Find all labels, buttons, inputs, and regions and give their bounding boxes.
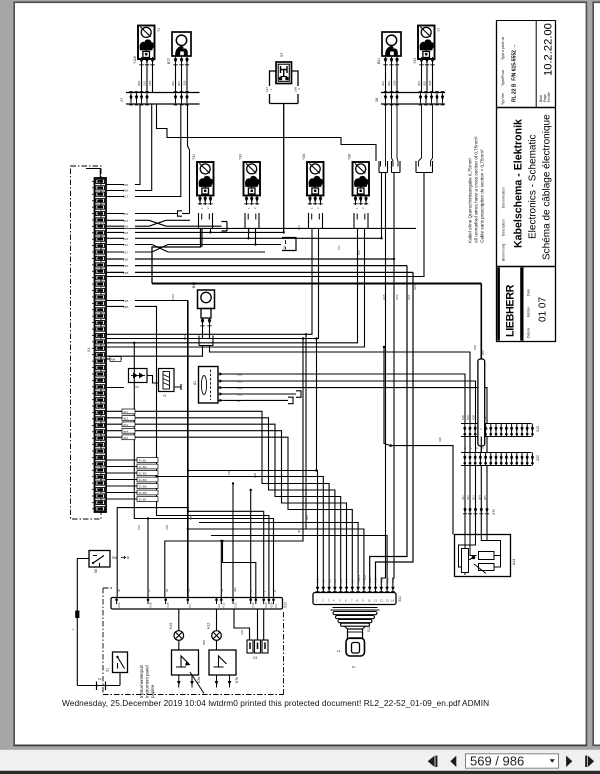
wires of Y34 bbox=[106, 229, 319, 598]
svg-text:10: 10 bbox=[368, 599, 372, 603]
connector X1 pins bbox=[92, 179, 105, 511]
solenoid valve Y36 bbox=[353, 162, 370, 196]
flasher unit K7 bbox=[172, 650, 199, 675]
svg-text:10.2.22.00: 10.2.22.00 bbox=[543, 23, 555, 76]
connector under B13 bbox=[199, 336, 213, 346]
svg-text:pupitre: pupitre bbox=[150, 684, 155, 698]
svg-text:K3: K3 bbox=[274, 604, 278, 608]
thick bus under valves bbox=[152, 283, 481, 285]
svg-text:HC5: HC5 bbox=[382, 294, 386, 300]
svg-text:Y23: Y23 bbox=[413, 58, 417, 64]
wire labels top-center bbox=[381, 81, 432, 86]
panel dash-dot border bbox=[103, 588, 284, 695]
svg-text:F2: F2 bbox=[98, 677, 102, 681]
bus to pressure switch tap bbox=[106, 231, 284, 233]
terminal bracket left bbox=[178, 211, 183, 216]
terminal stub right of K1 bbox=[174, 384, 181, 390]
svg-text:206: 206 bbox=[481, 350, 485, 355]
svg-text:206: 206 bbox=[171, 81, 175, 86]
svg-text:X70: X70 bbox=[492, 509, 496, 515]
svg-text:58: 58 bbox=[165, 588, 169, 592]
svg-text:B: B bbox=[127, 556, 129, 560]
svg-text:R: R bbox=[273, 590, 277, 592]
svg-text:21B: 21B bbox=[123, 264, 128, 268]
svg-text:RL 22 B F/N 615-5552 →: RL 22 B F/N 615-5552 → bbox=[512, 44, 518, 102]
LIEBHERR logo bbox=[497, 268, 500, 341]
solenoid valve Y1 (top-left) bbox=[138, 26, 155, 60]
wires of Y36 bbox=[106, 229, 453, 598]
svg-text:K10: K10 bbox=[251, 602, 255, 607]
connector under Y36 bbox=[354, 213, 368, 229]
stub via mid elbow bbox=[106, 306, 269, 597]
svg-text:49: 49 bbox=[220, 588, 224, 592]
comb connector X20 bbox=[461, 453, 532, 466]
svg-text:198: 198 bbox=[123, 258, 128, 262]
connector band X8 bbox=[381, 93, 445, 105]
fuse F2 bbox=[97, 682, 106, 691]
wire labels right runs bbox=[461, 415, 487, 500]
svg-text:21B: 21B bbox=[123, 299, 128, 303]
svg-text:31-B1: 31-B1 bbox=[139, 459, 147, 463]
svg-text:All unmarked wires have a cros: All unmarked wires have a cross section … bbox=[474, 136, 479, 243]
svg-text:K28: K28 bbox=[148, 602, 152, 607]
svg-text:4b12: 4b12 bbox=[380, 577, 384, 584]
svg-text:K1: K1 bbox=[163, 394, 167, 398]
X1 lower stub labels bbox=[122, 409, 135, 440]
svg-text:4b8: 4b8 bbox=[297, 528, 301, 533]
page bottom shadow bbox=[13, 745, 587, 747]
svg-text:A14: A14 bbox=[512, 559, 516, 565]
svg-text:HC6: HC6 bbox=[395, 294, 399, 300]
cable sheath marker bbox=[480, 284, 482, 424]
svg-text:305: 305 bbox=[483, 495, 487, 500]
instrument panel text bbox=[139, 665, 155, 698]
svg-text:151: 151 bbox=[337, 245, 341, 250]
svg-text:K7b: K7b bbox=[235, 677, 239, 683]
svg-text:K6: K6 bbox=[217, 604, 221, 608]
wire band X7 to connector X1 pin row A bbox=[106, 104, 181, 197]
svg-text:15A: 15A bbox=[137, 525, 141, 530]
svg-text:4b2: 4b2 bbox=[322, 578, 326, 583]
svg-text:209: 209 bbox=[137, 81, 141, 86]
svg-text:A1: A1 bbox=[193, 381, 197, 385]
svg-text:30: 30 bbox=[117, 588, 121, 592]
joystick pin arrows bbox=[316, 586, 395, 593]
wire band X7 elbow to bus bbox=[157, 104, 377, 161]
svg-text:4b1: 4b1 bbox=[123, 410, 128, 414]
crossing pair buses bbox=[106, 245, 168, 253]
X1 stubs lower bbox=[106, 359, 124, 388]
svg-text:S1: S1 bbox=[106, 668, 110, 672]
wire into top of X1 bbox=[86, 169, 100, 179]
svg-text:C: C bbox=[249, 590, 253, 592]
svg-text:31-B4: 31-B4 bbox=[139, 478, 147, 482]
svg-text:Denomination: Denomination bbox=[502, 187, 506, 208]
svg-text:1K2: 1K2 bbox=[363, 575, 367, 580]
svg-text:153: 153 bbox=[297, 225, 301, 230]
svg-text:21B: 21B bbox=[227, 470, 231, 475]
flasher unit K6 bbox=[209, 650, 236, 675]
wires band X8 to connectors bbox=[386, 104, 399, 161]
svg-text:4b10: 4b10 bbox=[368, 577, 372, 584]
svg-text:210: 210 bbox=[143, 81, 147, 86]
svg-text:31B: 31B bbox=[428, 81, 432, 86]
solenoid valve Y33 bbox=[244, 162, 261, 196]
potentiometer module A14 bbox=[455, 535, 511, 577]
btn first page bbox=[428, 756, 435, 767]
comb connector X12 bbox=[461, 424, 532, 437]
svg-text:4b6: 4b6 bbox=[345, 578, 349, 583]
svg-text:Type/From: Type/From bbox=[501, 70, 505, 86]
svg-text:Y7: Y7 bbox=[437, 28, 441, 32]
svg-text:K15: K15 bbox=[166, 602, 170, 607]
connector C under band X8 right bbox=[416, 161, 433, 173]
svg-text:01 07: 01 07 bbox=[538, 297, 549, 322]
svg-text:49a: 49a bbox=[233, 587, 237, 592]
svg-text:Date: Date bbox=[527, 289, 531, 296]
svg-text:M8: M8 bbox=[111, 357, 115, 361]
svg-text:58B: 58B bbox=[189, 515, 193, 520]
svg-text:207: 207 bbox=[123, 195, 128, 199]
svg-text:303: 303 bbox=[472, 495, 476, 500]
svg-text:31-B6: 31-B6 bbox=[139, 491, 147, 495]
svg-text:31-B2: 31-B2 bbox=[139, 465, 147, 469]
svg-text:204: 204 bbox=[123, 225, 128, 229]
joystick connector bar bbox=[313, 593, 396, 605]
svg-text:4b14: 4b14 bbox=[391, 577, 395, 584]
btn last page bbox=[585, 756, 587, 767]
svg-text:204: 204 bbox=[417, 81, 421, 86]
btn previous page bbox=[450, 756, 456, 767]
svg-text:4b11: 4b11 bbox=[374, 577, 378, 583]
horn H2 (top-center) bbox=[382, 32, 401, 56]
svg-text:4b3: 4b3 bbox=[327, 578, 331, 583]
pressure switch S7 (top center) bbox=[276, 62, 292, 84]
svg-text:Y36: Y36 bbox=[348, 154, 352, 160]
svg-text:K58: K58 bbox=[472, 415, 476, 420]
title block small labels bbox=[501, 37, 551, 338]
svg-text:4b1: 4b1 bbox=[316, 578, 320, 583]
svg-text:B77: B77 bbox=[167, 58, 171, 64]
svg-text:K23: K23 bbox=[233, 602, 237, 607]
svg-text:569 / 986: 569 / 986 bbox=[470, 754, 524, 769]
svg-text:Y31: Y31 bbox=[192, 154, 196, 160]
svg-text:Type’a partir de: Type’a partir de bbox=[501, 37, 505, 60]
sensor B13 (mid left) bbox=[198, 290, 215, 318]
svg-text:304: 304 bbox=[477, 495, 481, 500]
long bus upper bbox=[106, 227, 416, 229]
stub label boxes group B bbox=[124, 182, 135, 308]
svg-text:Y33: Y33 bbox=[239, 154, 243, 160]
svg-text:1b: 1b bbox=[352, 665, 356, 669]
ECU module A1 bbox=[199, 367, 219, 404]
svg-text:31B: 31B bbox=[148, 81, 152, 86]
svg-text:209: 209 bbox=[123, 237, 128, 241]
connector band X7 bbox=[126, 93, 200, 105]
svg-text:31B: 31B bbox=[240, 630, 244, 635]
svg-text:Instrument panel: Instrument panel bbox=[145, 665, 150, 698]
svg-text:31B: 31B bbox=[393, 81, 397, 86]
svg-text:Feuille: Feuille bbox=[547, 92, 551, 102]
svg-text:X1: X1 bbox=[87, 348, 91, 352]
svg-text:1301: 1301 bbox=[171, 293, 175, 300]
horn H1 (top-left) bbox=[172, 32, 191, 56]
svg-text:302: 302 bbox=[466, 495, 470, 500]
relay module K1 bbox=[159, 369, 175, 392]
svg-text:4b13: 4b13 bbox=[385, 577, 389, 584]
svg-text:4b7: 4b7 bbox=[351, 578, 355, 583]
svg-text:301: 301 bbox=[461, 495, 465, 500]
svg-text:B21: B21 bbox=[377, 58, 381, 64]
svg-text:K11: K11 bbox=[222, 602, 226, 607]
wires between combs bbox=[465, 437, 487, 453]
wires comb X20 down to X70 bbox=[465, 466, 487, 506]
svg-text:K7a: K7a bbox=[197, 677, 201, 683]
svg-text:K30: K30 bbox=[461, 415, 465, 420]
svg-text:H15: H15 bbox=[169, 623, 173, 629]
svg-text:14: 14 bbox=[391, 599, 395, 603]
A1 buses to right bbox=[225, 374, 487, 424]
svg-text:22B: 22B bbox=[123, 305, 128, 309]
svg-text:K7: K7 bbox=[188, 604, 192, 608]
svg-text:31B: 31B bbox=[183, 81, 187, 86]
svg-text:S12: S12 bbox=[367, 626, 371, 632]
connector A under band X8 left bbox=[379, 161, 388, 173]
indicator lamp H12 bbox=[216, 609, 218, 631]
svg-text:4b4: 4b4 bbox=[123, 429, 128, 433]
wires Y1 to band X7 bbox=[142, 66, 153, 93]
wire labels top-left bbox=[137, 81, 187, 86]
joystick stem bbox=[345, 626, 366, 629]
svg-text:Cable sans prescription de sec: Cable sans prescription de section = 0,7… bbox=[480, 149, 485, 243]
svg-text:Y126: Y126 bbox=[133, 56, 137, 64]
joystick bellows bbox=[331, 608, 380, 627]
svg-text:K58: K58 bbox=[473, 345, 477, 350]
joystick handle bbox=[346, 638, 365, 656]
connector under Y33 bbox=[245, 213, 259, 229]
svg-text:K15: K15 bbox=[466, 415, 470, 420]
svg-text:Electronics - Schematic: Electronics - Schematic bbox=[528, 135, 539, 239]
svg-text:31-B3: 31-B3 bbox=[139, 472, 147, 476]
svg-text:Instrumentenpult: Instrumentenpult bbox=[139, 665, 144, 698]
svg-text:31B: 31B bbox=[165, 525, 169, 530]
left feeds to joystick bbox=[188, 471, 318, 586]
pins of Y1 bbox=[139, 57, 143, 66]
switch S6 with wire bbox=[89, 551, 110, 568]
svg-text:HC2: HC2 bbox=[413, 284, 417, 290]
svg-text:11: 11 bbox=[374, 599, 377, 603]
second page sliver right bbox=[593, 2, 600, 745]
svg-text:4b5: 4b5 bbox=[339, 578, 343, 583]
svg-text:154: 154 bbox=[247, 229, 251, 234]
long left wire with marker bbox=[77, 559, 89, 686]
svg-text:4b9: 4b9 bbox=[305, 515, 309, 520]
svg-text:31-B7: 31-B7 bbox=[139, 498, 147, 502]
connector X70 bbox=[465, 505, 487, 535]
svg-text:31: 31 bbox=[187, 588, 191, 592]
svg-text:Y34: Y34 bbox=[302, 154, 306, 160]
svg-text:208: 208 bbox=[123, 183, 128, 187]
svg-text:X10: X10 bbox=[284, 602, 288, 608]
svg-text:152: 152 bbox=[357, 250, 361, 255]
svg-text:X7: X7 bbox=[120, 98, 124, 102]
indicator lamp H15 bbox=[178, 609, 180, 631]
svg-text:B13: B13 bbox=[192, 282, 196, 288]
svg-text:K2: K2 bbox=[483, 416, 487, 420]
svg-text:202: 202 bbox=[381, 81, 385, 86]
wire band X7 down right bbox=[188, 104, 190, 214]
long buses to the right side bbox=[106, 259, 413, 272]
svg-text:Description: Description bbox=[502, 219, 506, 236]
svg-text:V9: V9 bbox=[135, 385, 139, 389]
joystick wire labels bbox=[316, 577, 395, 584]
svg-text:15: 15 bbox=[147, 588, 151, 592]
svg-text:LIEBHERR: LIEBHERR bbox=[505, 284, 517, 337]
svg-text:207: 207 bbox=[177, 81, 181, 86]
solenoid valve Y31 bbox=[197, 162, 214, 196]
svg-text:K26: K26 bbox=[117, 602, 121, 607]
connector X1 body bbox=[95, 178, 107, 512]
svg-text:22B: 22B bbox=[123, 271, 128, 275]
feeds to bottom bar pins bbox=[188, 511, 264, 597]
svg-text:S6: S6 bbox=[94, 569, 98, 573]
svg-text:X3: X3 bbox=[253, 656, 257, 660]
svg-text:K23: K23 bbox=[264, 602, 268, 607]
svg-text:203: 203 bbox=[123, 219, 128, 223]
svg-text:X31: X31 bbox=[398, 596, 402, 602]
svg-text:31-B5: 31-B5 bbox=[139, 485, 147, 489]
svg-text:X20: X20 bbox=[536, 455, 540, 461]
svg-text:S7: S7 bbox=[280, 53, 284, 57]
page number combobox bbox=[466, 754, 559, 768]
svg-text:Benennung: Benennung bbox=[502, 244, 506, 261]
X1 bundle stubs with labels (bottom group) bbox=[106, 458, 158, 502]
svg-text:K28: K28 bbox=[269, 602, 273, 607]
svg-text:X12: X12 bbox=[536, 426, 540, 432]
A1 pins right side bbox=[218, 372, 225, 402]
svg-text:Typ Veh: Typ Veh bbox=[501, 93, 505, 105]
svg-text:Kabelschema - Elektronik: Kabelschema - Elektronik bbox=[513, 119, 525, 248]
harness dash-dot outline bbox=[71, 166, 102, 519]
svg-text:4b3: 4b3 bbox=[123, 423, 128, 427]
svg-text:90A: 90A bbox=[112, 556, 119, 560]
svg-text:Kabel ohne Querschnittsangabe: Kabel ohne Querschnittsangabe 0,75mm² bbox=[468, 157, 473, 243]
svg-text:150: 150 bbox=[283, 245, 287, 250]
svg-text:58B: 58B bbox=[202, 640, 206, 645]
wire bus drops to joystick right pins bbox=[370, 266, 407, 586]
svg-text:H12: H12 bbox=[207, 623, 211, 629]
svg-text:1300: 1300 bbox=[183, 333, 187, 340]
svg-text:1a: 1a bbox=[337, 649, 341, 653]
svg-text:205: 205 bbox=[123, 231, 128, 235]
svg-text:13: 13 bbox=[386, 599, 390, 603]
svg-text:HC1: HC1 bbox=[407, 294, 411, 300]
diode module V9 bbox=[129, 369, 148, 383]
wires of B13 bbox=[106, 346, 470, 424]
plug terminal bracket bbox=[282, 238, 296, 251]
connector under Y34 bbox=[309, 213, 323, 229]
link V9 to K1 bbox=[147, 376, 159, 384]
svg-text:A20: A20 bbox=[438, 437, 442, 442]
svg-text:197: 197 bbox=[123, 251, 128, 255]
svg-text:22B: 22B bbox=[253, 473, 257, 478]
connector under Y31 bbox=[199, 213, 213, 229]
svg-text:210: 210 bbox=[123, 243, 128, 247]
svg-text:4b5: 4b5 bbox=[123, 436, 128, 440]
toolbar bbox=[0, 750, 600, 771]
A1 pin label boxes bbox=[237, 372, 248, 402]
solenoid valve Y2 (top-center) bbox=[418, 26, 435, 60]
svg-text:1K1: 1K1 bbox=[357, 575, 361, 580]
svg-text:202: 202 bbox=[123, 212, 128, 216]
wires H1 to band X7 bbox=[176, 66, 188, 93]
bottom connector bar X10 bbox=[111, 598, 283, 610]
stub to long vertical bbox=[106, 300, 188, 302]
wire S1 to fuse line bbox=[77, 673, 120, 686]
svg-text:12: 12 bbox=[380, 599, 384, 603]
connector X3 bbox=[234, 609, 250, 640]
ignition switch S1 bbox=[113, 652, 128, 673]
svg-text:203: 203 bbox=[387, 81, 391, 86]
bus to connector C bbox=[106, 237, 382, 239]
svg-text:Schéma de câblage électronique: Schéma de câblage électronique bbox=[542, 114, 553, 260]
svg-text:4b2: 4b2 bbox=[123, 416, 128, 420]
stub group B with crossing bbox=[106, 213, 178, 215]
svg-text:Datum: Datum bbox=[527, 328, 531, 338]
wires of pressure switch bbox=[270, 71, 299, 108]
svg-text:4b4: 4b4 bbox=[333, 578, 337, 583]
btn next page bbox=[566, 756, 572, 767]
solenoid valve Y34 bbox=[307, 162, 324, 196]
connector B under band X8 bbox=[392, 161, 401, 173]
svg-text:205: 205 bbox=[423, 81, 427, 86]
svg-text:Edition: Edition bbox=[527, 307, 531, 317]
svg-text:206: 206 bbox=[123, 189, 128, 193]
svg-text:X8: X8 bbox=[375, 98, 379, 102]
pins of H1 bbox=[173, 57, 177, 66]
svg-text:Y1: Y1 bbox=[157, 28, 161, 32]
svg-text:Wednesday, 25.December 2019 10: Wednesday, 25.December 2019 10:04 lwtdrm… bbox=[62, 698, 489, 708]
